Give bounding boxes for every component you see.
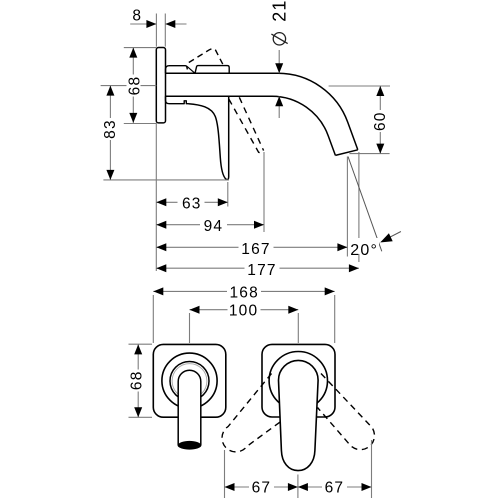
left thin inner circle xyxy=(172,364,207,399)
dim 68 top line xyxy=(132,48,134,123)
dims above bottom view xyxy=(129,291,335,417)
dim 83 line xyxy=(109,86,111,180)
label 83 rotated xyxy=(103,118,117,140)
body cap upper xyxy=(166,66,188,74)
label 63 xyxy=(178,195,205,209)
handle lever (bottom view) xyxy=(279,360,319,470)
dim 8 extension lines xyxy=(156,14,165,47)
right escutcheon square (bottom view) xyxy=(262,344,335,417)
lever hood curve (side view) xyxy=(189,97,229,180)
dim Ø21 line xyxy=(278,50,280,118)
dim 68 bottom exts xyxy=(129,344,153,417)
svg-text:83: 83 xyxy=(102,119,119,139)
svg-text:168: 168 xyxy=(229,284,258,301)
dim 83 ext bottom xyxy=(103,179,229,181)
svg-text:68: 68 xyxy=(126,76,143,96)
spout tube bottom outline xyxy=(166,96,336,155)
dim 68 top ext xyxy=(124,48,157,124)
20 degree leader line xyxy=(384,232,401,241)
dim 100 line xyxy=(190,309,299,311)
dim 63 line xyxy=(156,201,228,203)
dashed swung handle left (bottom view) xyxy=(222,374,282,452)
dim 67 67 line xyxy=(225,486,372,488)
dim 8 arrows xyxy=(146,20,156,28)
label 67 left xyxy=(249,480,274,494)
dim 94 line xyxy=(156,224,264,226)
diameter symbol xyxy=(271,33,287,45)
dim 177 right ext xyxy=(358,152,360,262)
dim 100 exts xyxy=(190,313,299,343)
label 20deg xyxy=(351,238,379,254)
svg-text:63: 63 xyxy=(182,195,202,212)
label 177 xyxy=(245,262,280,276)
dim 60 ext bottom xyxy=(349,153,389,155)
label 94 xyxy=(200,218,227,232)
dim 94 arrows xyxy=(156,221,166,229)
dim 68 top arrows xyxy=(129,48,137,58)
dashed lever raised (side view) xyxy=(189,49,224,66)
dim 60 ext (spout axis right) xyxy=(329,85,390,87)
label 68 bottom rotated xyxy=(129,370,143,392)
dim 167 line xyxy=(156,246,347,248)
svg-text:21: 21 xyxy=(270,0,290,22)
arrows side view xyxy=(106,20,392,272)
20 degree slanted ray xyxy=(348,157,382,252)
label 167 xyxy=(239,241,274,255)
left flange outer circle xyxy=(162,353,217,408)
dim 168 line xyxy=(153,290,334,292)
spout outlet dark ellipse xyxy=(178,441,201,449)
body cap lower xyxy=(166,96,189,104)
dim 94 right ext xyxy=(263,152,265,232)
wall plate (escutcheon, side view) xyxy=(156,48,165,123)
20 degree leader arrowhead xyxy=(380,233,393,242)
dim 60 arrows xyxy=(376,86,384,96)
dim 68 bottom arrows xyxy=(134,344,142,354)
right flange outer circle xyxy=(269,352,327,410)
lever top (side view, rest position) xyxy=(195,66,229,74)
dim 177 line xyxy=(156,267,359,269)
svg-text:94: 94 xyxy=(204,218,224,235)
dim 167 right ext / angle vertical ray xyxy=(346,157,348,257)
dim 177 arrows xyxy=(156,264,166,272)
spout tube (bottom view) xyxy=(178,370,201,449)
notch diagonal upper xyxy=(187,66,195,73)
spout tube top outline xyxy=(166,73,358,150)
spout outlet face xyxy=(335,150,357,156)
svg-text:68: 68 xyxy=(128,370,145,390)
ext left swing xyxy=(224,450,226,498)
label 68 top rotated xyxy=(127,75,141,97)
bottom 67/67 dims xyxy=(225,440,372,498)
dim 168 arrows xyxy=(153,287,163,295)
left ring circle xyxy=(170,362,209,401)
label 168 xyxy=(227,285,261,299)
ext handle center xyxy=(297,475,299,499)
svg-text:167: 167 xyxy=(241,241,270,258)
svg-text:67: 67 xyxy=(252,480,272,497)
dashed lever swung forward (side view) xyxy=(229,97,264,152)
dim 60 line xyxy=(379,86,381,154)
dim 8 line xyxy=(130,23,186,25)
svg-text:100: 100 xyxy=(229,302,258,319)
dim 63 arrows xyxy=(156,198,166,206)
dim 67 arrows xyxy=(225,483,235,491)
label 100 xyxy=(228,303,261,317)
ext right swing xyxy=(371,440,373,498)
dim 167 arrows xyxy=(156,243,166,251)
dashed swung handle right (bottom view) xyxy=(318,374,375,450)
svg-text:177: 177 xyxy=(247,262,276,279)
dim Ø21 arrows xyxy=(275,63,283,73)
left escutcheon square (bottom view) xyxy=(153,344,226,417)
svg-text:8: 8 xyxy=(132,8,142,25)
dim 68 bottom line xyxy=(137,344,139,417)
dim 83 arrows xyxy=(106,86,114,96)
svg-text:20°: 20° xyxy=(350,242,378,259)
wall surface extension line xyxy=(155,123,157,271)
label 67 right xyxy=(322,480,347,494)
dim 63 right ext xyxy=(227,182,229,207)
label 60 rotated xyxy=(373,110,387,132)
svg-text:60: 60 xyxy=(372,111,389,131)
dim 100 arrows xyxy=(190,306,200,314)
dim 83 ext top (spout axis left) xyxy=(101,85,157,87)
svg-text:67: 67 xyxy=(325,480,345,497)
dim 168 exts xyxy=(153,295,334,343)
